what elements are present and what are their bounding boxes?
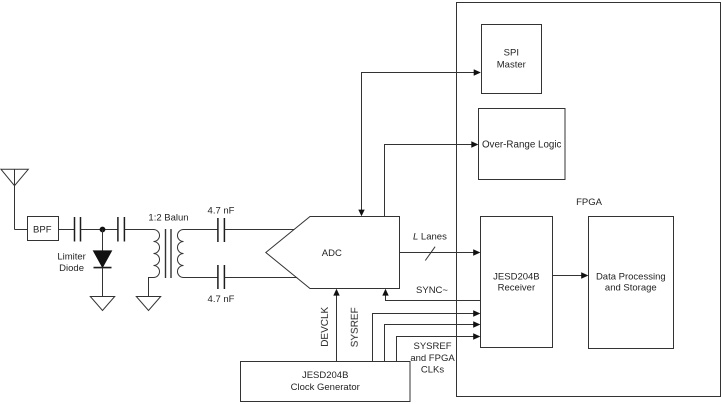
svg-text:and Storage: and Storage [605, 283, 657, 294]
svg-text:JESD204B: JESD204B [493, 271, 539, 282]
wire ADC to SPI Master [358, 69, 481, 216]
svg-text:DEVCLK: DEVCLK [320, 306, 331, 346]
svg-text:1:2 Balun: 1:2 Balun [148, 212, 188, 223]
wire ADC to Over-Range Logic [385, 141, 479, 216]
wire primary to ground [149, 278, 154, 297]
Data Processing and Storage box U5 [589, 217, 674, 349]
wire BPF to C1 [59, 229, 75, 231]
wire antenna to BPF [15, 229, 28, 231]
svg-text:JESD204B: JESD204B [302, 370, 348, 381]
capacitor C2 [118, 217, 125, 242]
capacitor C4 [218, 265, 225, 289]
capacitor C1 [75, 217, 81, 242]
wire C4 to ADC bottom input [224, 277, 297, 279]
wire clock generator FPGA CLK 2 to receiver [397, 333, 481, 361]
svg-text:BPF: BPF [33, 225, 52, 236]
svg-text:4.7 nF: 4.7 nF [208, 294, 235, 305]
svg-text:Diode: Diode [59, 263, 84, 274]
node A junction [100, 227, 106, 233]
svg-text:ADC: ADC [322, 248, 342, 259]
wire clock generator SYSREF to receiver [373, 310, 481, 361]
svg-text:Clock Generator: Clock Generator [291, 382, 360, 393]
ground GND2 [136, 297, 160, 311]
wire C2 to balun primary [125, 229, 154, 231]
ground GND1 [90, 297, 114, 311]
wire L lanes ADC to receiver [400, 247, 481, 261]
FPGA box [457, 3, 721, 397]
filter BPF [28, 217, 59, 241]
svg-text:L Lanes: L Lanes [413, 231, 447, 242]
limiter diode D1 [94, 251, 112, 268]
Over-Range Logic box U3 [479, 109, 566, 180]
label SYSREF and FPGA CLKs [410, 341, 455, 376]
JESD204B Receiver box U4 [481, 217, 553, 348]
wire node A to limiter diode [102, 230, 104, 252]
JESD204B Clock Generator box U6 [241, 362, 411, 402]
wire clock generator FPGA CLK 1 to receiver [385, 321, 481, 361]
transformer T1 core [166, 229, 172, 278]
wire C3 to ADC top input [224, 229, 294, 231]
svg-text:FPGA: FPGA [576, 197, 603, 208]
svg-text:SYNC~: SYNC~ [416, 285, 448, 296]
wire secondary top to C3 [184, 229, 219, 231]
svg-text:Receiver: Receiver [498, 283, 536, 294]
wire secondary bottom to C4 [184, 277, 219, 279]
wire DEVCLK clock generator to ADC [333, 289, 339, 362]
transformer T1 1:2 balun, primary winding [154, 230, 160, 278]
svg-text:SYSREF: SYSREF [350, 307, 361, 347]
svg-text:SPI: SPI [504, 48, 519, 59]
transformer T1 secondary winding [178, 230, 184, 278]
wire C1 to node A [81, 229, 119, 231]
capacitor C3 [218, 218, 225, 242]
wire receiver to data processing [553, 272, 589, 278]
svg-text:SYSREF: SYSREF [413, 341, 451, 352]
SPI Master box U2 [482, 25, 542, 94]
label Limiter Diode [57, 251, 86, 274]
wire diode to ground [102, 268, 104, 297]
svg-text:Data Processing: Data Processing [596, 271, 666, 282]
svg-text:4.7 nF: 4.7 nF [208, 206, 235, 217]
svg-text:Limiter: Limiter [57, 251, 86, 262]
ADC converter U1 [266, 217, 400, 289]
svg-text:CLKs: CLKs [421, 365, 444, 376]
svg-text:Over-Range Logic: Over-Range Logic [482, 139, 562, 150]
svg-text:Master: Master [497, 60, 526, 71]
antenna ANT1 [1, 169, 28, 229]
svg-text:and FPGA: and FPGA [410, 353, 455, 364]
wire SYNC~ receiver to ADC [382, 289, 480, 301]
